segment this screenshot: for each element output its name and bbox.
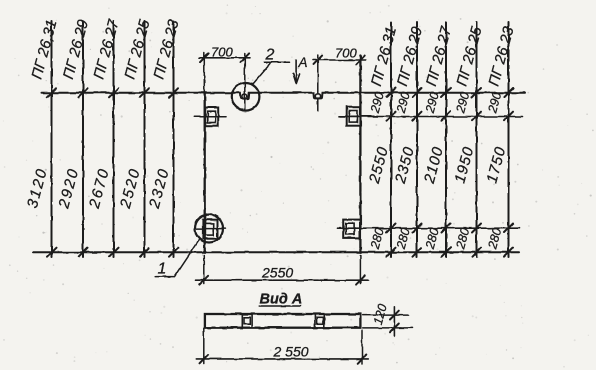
svg-text:2350: 2350: [392, 145, 418, 186]
left column 1 line ПГ26,31: [47, 21, 56, 257]
svg-text:ПГ 26.29: ПГ 26.29: [60, 17, 92, 81]
svg-text:ПГ 26.27: ПГ 26.27: [423, 24, 455, 88]
svg-text:ПГ 26,31: ПГ 26,31: [28, 18, 60, 81]
view direction arrow А: [293, 60, 299, 84]
svg-text:2: 2: [265, 47, 275, 64]
svg-text:Вид А: Вид А: [260, 292, 303, 308]
notch dot left: [242, 94, 247, 99]
svg-text:ПГ 26.27: ПГ 26.27: [90, 17, 122, 81]
anchor bottom-left: [196, 220, 225, 239]
leader to label 1: [155, 239, 199, 277]
side view bar: [205, 314, 361, 328]
panel left edge: [204, 93, 206, 252]
detail circle 2 (top notch): [232, 83, 260, 111]
svg-text:700: 700: [335, 46, 357, 61]
svg-text:280: 280: [394, 226, 413, 251]
left column 2 line ПГ26.29: [79, 21, 88, 257]
anchor bottom-right: [338, 220, 368, 238]
svg-text:280: 280: [423, 226, 442, 251]
svg-text:2320: 2320: [146, 166, 173, 211]
left column 3 line ПГ26.27: [109, 21, 118, 257]
svg-text:2550: 2550: [366, 145, 392, 186]
notch dot right: [316, 94, 321, 99]
svg-text:1950: 1950: [451, 145, 477, 186]
svg-text:290: 290: [485, 90, 504, 115]
svg-text:2100: 2100: [421, 145, 447, 186]
svg-text:2670: 2670: [86, 166, 113, 211]
right column 4 line ПГ26.25: [472, 22, 481, 257]
anchor top-left: [195, 108, 226, 126]
svg-text:290: 290: [394, 90, 413, 115]
svg-text:120: 120: [371, 302, 390, 326]
left column 5 line ПГ26.23: [169, 21, 178, 257]
detail circle 1 (bottom-left anchor): [195, 215, 223, 243]
right column 5 line ПГ26.23: [504, 22, 513, 257]
svg-text:290: 290: [368, 90, 387, 115]
svg-text:ПГ 26.25: ПГ 26.25: [121, 17, 153, 81]
svg-text:ПГ 26.25: ПГ 26.25: [453, 24, 485, 88]
svg-text:ПГ 26.23: ПГ 26.23: [150, 17, 182, 81]
right column 2 line ПГ26.29: [413, 22, 422, 257]
dimension 120: extensions, line, ticks: [363, 307, 413, 337]
svg-text:3120: 3120: [24, 166, 51, 210]
centerline through circle 2 / extension of dim 700: [244, 54, 246, 111]
panel right edge (extended up for dim): [359, 56, 361, 253]
svg-text:1: 1: [158, 261, 167, 278]
svg-text:2520: 2520: [117, 166, 144, 211]
svg-text:280: 280: [368, 226, 387, 251]
svg-text:2 550: 2 550: [273, 344, 309, 360]
svg-text:700: 700: [211, 45, 233, 60]
bottom boundary line: [33, 251, 519, 253]
right horizontal line y=116 (anchor centerline extended): [339, 116, 523, 118]
dimension 700 right: line, ticks, extensions: [313, 55, 366, 111]
anchor top-right: [339, 107, 377, 126]
top boundary line with two notches: [42, 93, 525, 99]
dimension 2550 top: line, ticks, extensions: [196, 255, 368, 285]
right column 3 line ПГ26.27: [442, 22, 451, 257]
svg-text:2920: 2920: [55, 166, 82, 211]
dimension 2550 bottom: line, ticks, extensions: [196, 329, 368, 364]
svg-text:290: 290: [453, 90, 472, 115]
svg-text:280: 280: [453, 226, 472, 251]
right column 1 line ПГ26.31: [387, 22, 396, 257]
right horizontal line y=228 (anchor centerline extended): [338, 227, 520, 229]
svg-text:ПГ 26.23: ПГ 26.23: [485, 24, 517, 88]
svg-text:280: 280: [485, 226, 504, 251]
svg-text:1750: 1750: [483, 145, 509, 186]
left column 4 line ПГ26.25: [140, 21, 149, 257]
svg-text:290: 290: [423, 90, 442, 115]
leader to label 2: [253, 62, 290, 84]
dimension 700 left: line and ticks: [199, 53, 250, 93]
underline of title Вид А: [259, 305, 300, 307]
